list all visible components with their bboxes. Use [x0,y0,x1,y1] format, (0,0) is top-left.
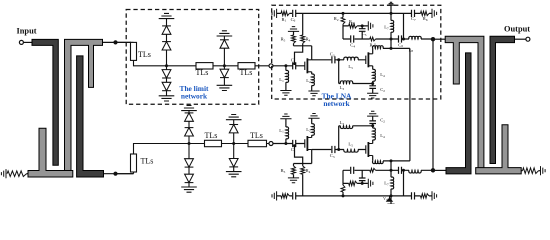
ground (top of stack 1) [159,13,175,18]
wire LNA to coupler top [433,38,445,40]
wire node to TL stub [118,41,134,43]
wire row B [343,38,433,40]
resistor (coupler isolation, right) [523,168,539,174]
coupled line dark: bottom bar + rising finger (right) [446,53,471,174]
ground under L1 [280,91,291,96]
svg-text:Output: Output [504,24,530,33]
diode D4 [162,82,171,90]
ground (rail far left) [272,9,277,18]
capacitor C3 [332,56,335,63]
supply chain with L7 [390,5,392,20]
wire input to coupler [24,41,34,43]
wire node to TL stub (bottom) [118,172,134,174]
diode stack 1b (x=189) [188,111,190,187]
wire LNA to coupler bottom [433,169,446,171]
shared vertical bias line between branches [409,48,411,160]
capacitor C6 (rail left) [293,10,296,17]
wire drain riser Q2 [372,48,374,53]
ground (bottom of stack 2b) [226,172,242,177]
wire resistor to bar [27,173,30,175]
diode D6 [220,69,229,77]
node feedback tap [337,58,340,61]
diode D2 [162,42,171,50]
node output bottom [431,168,435,172]
wire coupler bottom to node [104,173,134,175]
diode stack 1 (x=166.5) [166,19,168,96]
input port circle [19,40,23,44]
diode D12 [229,159,238,167]
wire R3 row [343,25,368,27]
Vd supply triangle (bottom branch) [389,196,391,198]
wire bias L-link [295,46,303,63]
wire top rail [277,12,432,14]
coupled line light: bottom bar + stub finger (right) [476,125,522,174]
ground (bottom of stack 2) [217,85,233,90]
diode stack 2 (x=224.4) [223,36,225,85]
wire coupler top to node [103,41,132,43]
svg-text:TLs: TLs [205,131,218,140]
feedback inductor L3 [340,81,352,84]
node B (bottom-left junction) [113,172,117,176]
diode D7 [185,113,194,121]
wire drain riser Q1 [311,46,313,60]
resistor R5 chain (gnd + zigzag) [288,27,299,32]
ground (top of stack 2b) [226,115,242,120]
capacitor C4 [351,35,354,42]
transmission line TLs (horizontal 2, top) [238,63,255,69]
svg-text:TLs: TLs [196,68,209,77]
inductor L1 chain [285,66,287,71]
svg-text:TLs: TLs [141,157,154,166]
resistor R2 chain [342,13,344,17]
feedback drop wire [338,60,340,84]
inductor L8 [409,36,421,39]
inductor L6 [373,46,384,49]
wire coupler to resistor [521,170,522,172]
coupled line light: bottom bar + stub finger [28,128,73,177]
port circle LNA input [269,64,273,68]
resistor R5 (row B) [370,37,376,41]
wire bus (top limiter) [134,60,270,65]
ground (left, bottom) [1,169,6,178]
wire bus (bottom limiter) [134,144,270,155]
resistor R3 [349,24,357,28]
coupled line light: top bar + two fingers [65,39,103,171]
capacitor C5 chain [361,26,363,39]
ground under C2 [367,93,378,98]
wire source Q1 down [311,72,313,74]
svg-text:TLs: TLs [240,68,253,77]
ground (end of R3 row) [368,21,373,30]
transistor Q1 [305,58,312,73]
diode D1 [162,26,171,34]
coupled line light: top bar + two fingers (right) [445,36,484,168]
dashed box: the limit network [126,10,259,105]
supply bars [387,2,394,5]
transmission line TLs (vertical, top) [131,42,137,60]
node output top [431,37,435,41]
ground (bottom of stack 1b) [181,187,197,192]
wire coupler to output port [515,38,526,40]
wire L6 row [383,47,410,49]
resistor R4 chain [302,13,304,35]
inductor L5 [344,57,358,60]
bottom LNA = mirrored copy of top LNA strokes [269,111,437,207]
wire drain row Q1 [312,59,366,61]
wire gate row [273,65,305,67]
ground (top of stack 2) [217,31,233,36]
wire bias row [294,45,312,47]
resistor R6 [421,11,430,15]
svg-text:network: network [323,99,350,108]
node A (top-left junction) [113,40,117,44]
svg-text:TLs: TLs [250,131,263,140]
diode D5 [220,40,229,48]
resistor (coupler isolation, left) [7,171,27,177]
svg-text:TLs: TLs [138,50,151,59]
ground (top of stack 1b) [181,105,197,110]
shared output junction line [432,39,434,170]
inductor L2 [312,74,315,86]
ground (right, bottom) [541,166,546,175]
diode D3 [162,70,171,78]
coupled line dark: output bar + hanging finger (right) [490,36,515,163]
coupled line dark: input bar + hanging finger [32,39,58,165]
capacitor C1 [293,62,296,69]
node J1 [284,64,287,67]
bias join dot [293,62,296,65]
output port circle [526,37,530,41]
transmission line TLs (horizontal 1, bottom) [205,140,222,146]
diode D10 [185,174,194,182]
capacitor C7 (rail right) [412,10,415,17]
ground (rail far right) [432,9,437,18]
capacitor C6 (row B) [399,35,402,42]
wire rail drop after C6 [403,13,405,39]
wire R2 down to row B [342,26,344,39]
transmission line TLs (horizontal 1, top) [196,63,213,69]
diode D8 [185,128,194,136]
transistor Q2 [366,52,373,67]
dashed box: the LNA network [272,5,441,99]
diode D9 [185,159,194,167]
capacitor C2 [369,86,376,89]
transmission line TLs (horizontal 2, bottom) [248,140,267,146]
inductor L4 [373,69,376,81]
svg-text:Input: Input [17,27,37,36]
diode stack 2b (x=233.7) [233,120,235,172]
wire source Q2 chain [372,66,374,70]
svg-text:network: network [181,91,208,100]
resistor R1 [281,11,289,15]
coupled line dark: bottom bar + rising finger [77,56,104,177]
diode D11 [229,125,238,133]
transmission line TLs (vertical, bottom) [131,154,137,172]
ground (bottom of stack 1) [159,96,175,101]
ground under L2 [308,91,319,96]
